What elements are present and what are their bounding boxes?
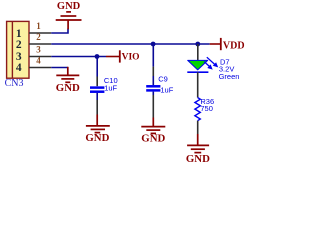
wire pin1 to ground — [51, 29, 68, 33]
capacitor C10 pin top — [96, 77, 98, 87]
svg-text:1: 1 — [36, 21, 41, 31]
svg-text:Green: Green — [219, 72, 240, 81]
svg-text:1uF: 1uF — [160, 86, 173, 95]
capacitor C9 pin bottom — [152, 92, 154, 95]
wire R36 to ground — [197, 121, 199, 134]
svg-text:750: 750 — [200, 104, 213, 113]
power port VDD — [210, 38, 245, 51]
svg-text:4: 4 — [16, 62, 22, 74]
svg-text:VDD: VDD — [223, 40, 245, 51]
svg-text:VIO: VIO — [122, 52, 140, 62]
svg-text:2: 2 — [16, 39, 22, 51]
capacitor C10 plates — [90, 88, 104, 92]
pin 1 stub — [29, 32, 51, 34]
pin 4 stub — [29, 67, 51, 69]
capacitor C9 plates — [146, 86, 160, 90]
LED D7 emission arrow 2 — [204, 62, 213, 70]
LED D7 triangle — [188, 60, 208, 70]
svg-text:1uF: 1uF — [104, 83, 117, 92]
svg-text:GND: GND — [186, 153, 210, 165]
LED D7 emission arrow 1 — [207, 57, 218, 67]
svg-text:GND: GND — [85, 132, 109, 144]
wire junction to C10 — [96, 57, 98, 77]
pin 2 stub — [29, 43, 51, 45]
ground GND under R36 — [187, 134, 209, 153]
pin 3 stub — [29, 56, 51, 58]
capacitor C9 pin top — [152, 67, 154, 76]
ground GND under C10 — [86, 115, 110, 133]
wire LED to R36 — [197, 72, 199, 97]
wire VIO net (pin 3) — [51, 56, 106, 58]
svg-text:C9: C9 — [158, 75, 168, 84]
wire junction to LED D7 — [197, 44, 199, 60]
svg-text:2: 2 — [36, 32, 41, 42]
capacitor C10 pin bottom — [96, 93, 98, 100]
ground GND under C9 — [141, 118, 165, 134]
svg-text:3: 3 — [36, 45, 41, 55]
svg-text:GND: GND — [57, 1, 81, 12]
power port VIO — [106, 50, 140, 62]
junction LED/VDD — [195, 42, 200, 47]
svg-text:4: 4 — [36, 56, 41, 66]
junction C9/VDD — [151, 42, 156, 47]
svg-text:GND: GND — [56, 82, 80, 94]
connector CN3 body — [7, 21, 29, 78]
svg-text:CN3: CN3 — [5, 78, 24, 89]
ground GND top (inverted) — [56, 12, 82, 29]
resistor R36 zigzag — [195, 98, 200, 121]
LED D7 cathode bar — [187, 71, 208, 73]
ground GND bottom-left — [56, 67, 79, 83]
junction C10/VIO — [95, 54, 100, 59]
wire VDD net (pin 2) — [51, 43, 209, 45]
wire junction to C9 — [152, 44, 154, 67]
wire pin4 to ground — [51, 67, 68, 69]
svg-text:GND: GND — [141, 133, 165, 145]
